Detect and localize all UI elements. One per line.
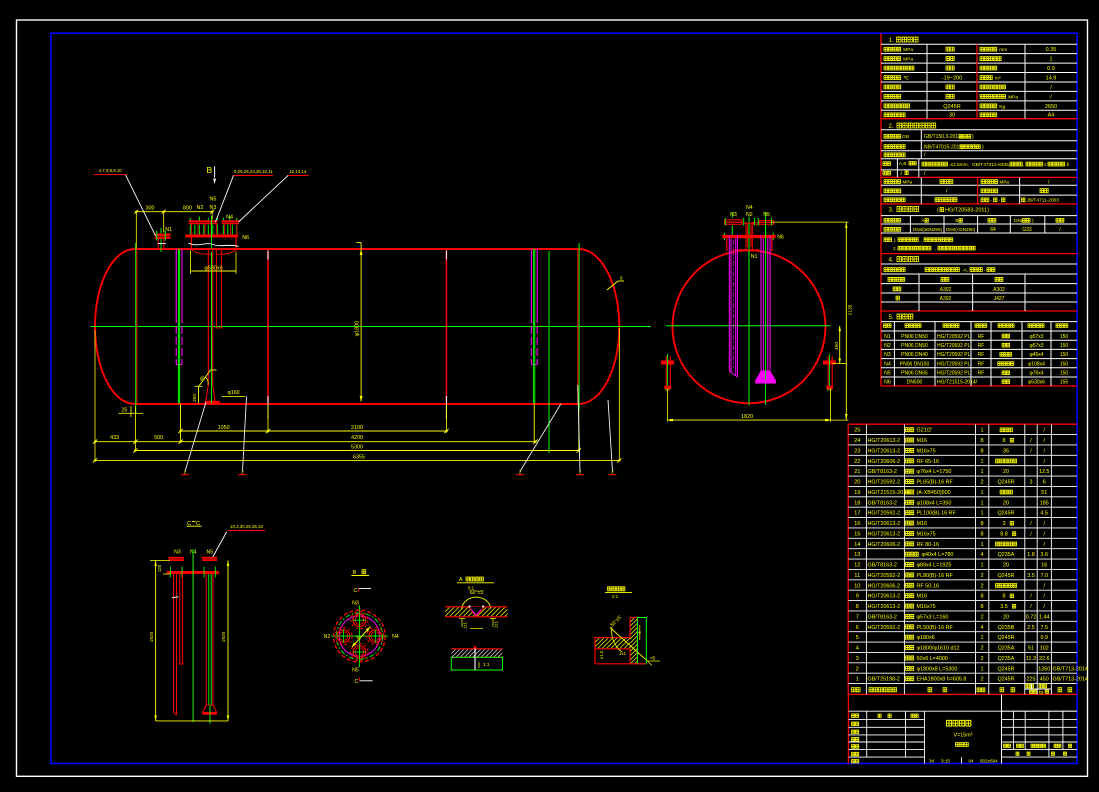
svg-text:10,3,30,26,25,10: 10,3,30,26,25,10 — [230, 524, 264, 529]
svg-text:16: 16 — [1041, 563, 1047, 569]
svg-text:102: 102 — [1040, 646, 1049, 652]
svg-text:433: 433 — [110, 435, 119, 441]
svg-text:RF 50-16: RF 50-16 — [917, 583, 939, 589]
svg-text:0.35: 0.35 — [1046, 47, 1057, 53]
svg-text:NB/T47015-2011(: NB/T47015-2011( — [924, 145, 964, 151]
svg-text:2: 2 — [980, 573, 983, 579]
svg-text:9: 9 — [856, 594, 859, 600]
svg-text:N1: N1 — [751, 254, 758, 260]
svg-text:φ76x4: φ76x4 — [1029, 371, 1043, 377]
svg-text:8: 8 — [1003, 594, 1006, 600]
svg-text:64: 64 — [990, 227, 996, 233]
svg-text:HG/T20592-2: HG/T20592-2 — [868, 480, 901, 486]
svg-text:G21/2': G21/2' — [917, 428, 933, 434]
svg-text:12,13,14: 12,13,14 — [289, 169, 307, 174]
svg-text:HG/T20592 PL: HG/T20592 PL — [937, 343, 971, 349]
svg-text:N5: N5 — [884, 371, 891, 377]
svg-text:φ57x3: φ57x3 — [1029, 334, 1043, 340]
svg-text:22.6: 22.6 — [1039, 656, 1050, 662]
svg-text:N3: N3 — [730, 212, 737, 218]
svg-text:δ: δ — [1067, 162, 1070, 168]
svg-text:MPa: MPa — [1000, 180, 1010, 185]
svg-text:N4: N4 — [746, 205, 753, 211]
svg-text:3.5: 3.5 — [1000, 604, 1008, 610]
svg-text:HG/T21515-2014: HG/T21515-2014 — [868, 490, 910, 496]
svg-text:HG/T20606-2: HG/T20606-2 — [868, 542, 901, 548]
svg-text:PN06 DN65: PN06 DN65 — [901, 371, 928, 377]
svg-text:V=15m³: V=15m³ — [954, 733, 973, 739]
svg-text:φ1800: φ1800 — [355, 321, 361, 337]
svg-text:N2: N2 — [197, 205, 204, 211]
svg-text:MPa: MPa — [903, 180, 913, 185]
svg-text:6: 6 — [1043, 480, 1046, 486]
svg-text:3: 3 — [856, 656, 859, 662]
svg-text:HG/T20613-2: HG/T20613-2 — [868, 531, 901, 537]
svg-text:2: 2 — [980, 656, 983, 662]
svg-text:1: 1 — [980, 563, 983, 569]
svg-text:N1: N1 — [884, 334, 891, 340]
svg-text:1: 1 — [980, 490, 983, 496]
svg-text:1.44: 1.44 — [1039, 614, 1050, 620]
svg-text:EHA1800x8 h=605.8: EHA1800x8 h=605.8 — [917, 677, 967, 683]
svg-text:HG/T20592 PL: HG/T20592 PL — [937, 334, 971, 340]
svg-text:N5: N5 — [210, 197, 217, 203]
svg-text:51: 51 — [1028, 646, 1034, 652]
svg-text:150: 150 — [1060, 343, 1069, 349]
svg-text:1±1: 1±1 — [463, 621, 468, 629]
svg-text:225: 225 — [1027, 677, 1036, 683]
svg-text:4200: 4200 — [351, 435, 363, 441]
svg-text:3: 3 — [1003, 521, 1006, 527]
svg-text:8: 8 — [980, 531, 983, 537]
svg-text:φ180x6: φ180x6 — [917, 635, 935, 641]
svg-text:2: 2 — [980, 583, 983, 589]
svg-text:C: C — [355, 679, 359, 685]
svg-text:1920: 1920 — [221, 631, 227, 642]
svg-text:0.9: 0.9 — [1041, 635, 1049, 641]
svg-text:7.0: 7.0 — [1041, 573, 1049, 579]
svg-text:HG/T20613-2: HG/T20613-2 — [868, 448, 901, 454]
svg-text:φ530x6: φ530x6 — [204, 265, 222, 271]
svg-text:φ1800x8 L=5300: φ1800x8 L=5300 — [917, 666, 958, 672]
svg-text:2: 2 — [980, 614, 983, 620]
svg-text:1: 1 — [980, 500, 983, 506]
svg-text:Q235A: Q235A — [998, 552, 1015, 558]
svg-text:HG/T20592 PL: HG/T20592 PL — [937, 361, 971, 367]
svg-text:1: 1 — [894, 238, 897, 243]
svg-text:35: 35 — [1003, 448, 1009, 454]
svg-text:1: 1 — [856, 677, 859, 683]
svg-text:GB/T713-2014: GB/T713-2014 — [1053, 666, 1088, 672]
svg-text:120: 120 — [157, 564, 162, 572]
svg-text:M16x75: M16x75 — [917, 531, 936, 537]
svg-text:N2: N2 — [324, 634, 331, 640]
svg-text:25: 25 — [854, 428, 860, 434]
svg-text:155: 155 — [1060, 380, 1069, 386]
svg-text:B: B — [207, 165, 213, 175]
svg-text:4.: 4. — [889, 257, 894, 264]
svg-text:60x6 L=4000: 60x6 L=4000 — [917, 656, 948, 662]
svg-text:6: 6 — [856, 625, 859, 631]
svg-text:3.: 3. — [889, 207, 894, 214]
svg-text:m³: m³ — [995, 75, 1001, 81]
svg-text:HG/T20613-2: HG/T20613-2 — [868, 594, 901, 600]
svg-text:2: 2 — [1044, 162, 1047, 168]
svg-text:1.8: 1.8 — [1027, 552, 1035, 558]
svg-text:18: 18 — [854, 500, 860, 506]
svg-text:A: A — [459, 577, 463, 583]
svg-text:5300: 5300 — [351, 445, 363, 451]
svg-text:PL50(B)-16 RF: PL50(B)-16 RF — [917, 625, 954, 631]
svg-text:,: , — [1023, 163, 1024, 168]
svg-text:MPa: MPa — [903, 57, 913, 63]
svg-text:B: B — [353, 570, 357, 576]
svg-text:φ108x4: φ108x4 — [1028, 361, 1045, 367]
svg-text:PN06 DN50: PN06 DN50 — [901, 343, 928, 349]
svg-text:DN(: DN( — [1014, 218, 1023, 224]
svg-text:11.3: 11.3 — [1026, 656, 1036, 662]
svg-text:60°±5': 60°±5' — [470, 590, 485, 596]
svg-text:9,25,26,24,25,10,11: 9,25,26,24,25,10,11 — [234, 169, 273, 174]
svg-text:HG/T20592 PL: HG/T20592 PL — [937, 371, 971, 377]
svg-text:N3: N3 — [884, 352, 891, 358]
svg-text:RF: RF — [978, 352, 985, 358]
svg-text:250: 250 — [192, 394, 198, 402]
svg-text:4: 4 — [980, 552, 983, 558]
svg-text:14.9: 14.9 — [1046, 75, 1057, 81]
svg-text:DN4(<DN250): DN4(<DN250) — [946, 227, 976, 232]
svg-text:φ: φ — [356, 634, 359, 639]
svg-text:1: 1 — [980, 428, 983, 434]
svg-text:11: 11 — [854, 573, 860, 579]
svg-text:M16x75: M16x75 — [917, 448, 936, 454]
svg-text:mm: mm — [999, 48, 1007, 53]
svg-text:2.5: 2.5 — [1027, 625, 1035, 631]
svg-text:J427: J427 — [994, 296, 1005, 302]
svg-text:21: 21 — [854, 469, 860, 475]
svg-text:12.5: 12.5 — [1039, 469, 1050, 475]
svg-text:6: 6 — [620, 276, 623, 281]
svg-text:A302: A302 — [940, 287, 952, 293]
svg-text:17: 17 — [854, 511, 860, 517]
svg-text:N3: N3 — [352, 601, 359, 607]
svg-text:RF: RF — [978, 371, 985, 377]
svg-text:φ57x3: φ57x3 — [1029, 343, 1043, 349]
svg-text:HG/T20606-2: HG/T20606-2 — [868, 583, 901, 589]
svg-text:GB/T713-2014: GB/T713-2014 — [1053, 677, 1088, 683]
svg-text:8: 8 — [856, 604, 859, 610]
svg-text:N2: N2 — [746, 212, 753, 218]
svg-text:PN06 DN50: PN06 DN50 — [901, 334, 928, 340]
svg-text:500: 500 — [154, 435, 163, 441]
svg-text:PL65(B)-16 RF: PL65(B)-16 RF — [917, 480, 954, 486]
svg-text:φ530x6: φ530x6 — [1028, 380, 1045, 386]
svg-text:16: 16 — [854, 521, 860, 527]
svg-text:,≤2.5mm,: ,≤2.5mm, — [949, 162, 969, 168]
svg-text:8: 8 — [980, 438, 983, 444]
svg-text:Q235B: Q235B — [998, 625, 1015, 631]
svg-text:800: 800 — [183, 206, 192, 212]
svg-text:22: 22 — [854, 459, 860, 465]
svg-text:Kg: Kg — [999, 104, 1005, 110]
svg-text:13: 13 — [854, 552, 860, 558]
svg-text:20: 20 — [1003, 469, 1009, 475]
svg-text:2:1: 2:1 — [612, 594, 619, 599]
svg-text:51: 51 — [1041, 490, 1047, 496]
svg-text:≥1.5: ≥1.5 — [599, 650, 604, 659]
svg-text:G33: G33 — [1022, 227, 1032, 233]
svg-text:M16: M16 — [917, 438, 928, 444]
svg-text:N5: N5 — [763, 212, 770, 218]
svg-text:M16x75: M16x75 — [917, 604, 936, 610]
svg-text:≈5: ≈5 — [650, 656, 656, 661]
svg-text:Q245R: Q245R — [997, 511, 1014, 517]
svg-text:RF: RF — [978, 334, 985, 340]
svg-text:GB/T8163-2: GB/T8163-2 — [868, 469, 897, 475]
svg-text:PL80(B)-16 RF: PL80(B)-16 RF — [917, 573, 954, 579]
svg-text:300: 300 — [146, 206, 155, 212]
svg-text:A302: A302 — [940, 296, 952, 302]
svg-text:20: 20 — [1003, 614, 1009, 620]
svg-text:7: 7 — [856, 614, 859, 620]
svg-text:1:1: 1:1 — [483, 662, 490, 667]
svg-text:8: 8 — [980, 604, 983, 610]
svg-text:RF 65-16: RF 65-16 — [917, 459, 939, 465]
svg-text:GB/T8163-2: GB/T8163-2 — [868, 500, 897, 506]
svg-text:DN500: DN500 — [907, 380, 923, 386]
svg-text:,: , — [935, 246, 936, 251]
svg-text:J: J — [900, 171, 902, 176]
svg-text:HG/T20613-2: HG/T20613-2 — [868, 438, 901, 444]
svg-text:A302: A302 — [993, 287, 1005, 293]
svg-text:N4: N4 — [226, 215, 233, 221]
svg-text:PL100(B)-16 RF: PL100(B)-16 RF — [917, 511, 957, 517]
svg-text:GB/T8163-2: GB/T8163-2 — [868, 614, 897, 620]
svg-text:150: 150 — [1060, 361, 1069, 367]
svg-text:φ57x3 L=160: φ57x3 L=160 — [917, 614, 949, 620]
svg-text:24: 24 — [854, 438, 861, 444]
svg-text:M16: M16 — [917, 594, 928, 600]
svg-text:2: 2 — [856, 666, 859, 672]
svg-text:1050: 1050 — [218, 425, 230, 431]
svg-text:1: 1 — [980, 469, 983, 475]
svg-text:2: 2 — [980, 677, 983, 683]
svg-text:2.: 2. — [893, 246, 897, 251]
svg-text:-A,: -A, — [962, 268, 968, 274]
svg-text:(: ( — [937, 208, 939, 214]
svg-text:14: 14 — [854, 542, 861, 548]
svg-text:φ45x4: φ45x4 — [1029, 352, 1043, 358]
svg-text:HG/T20606-2: HG/T20606-2 — [868, 459, 901, 465]
svg-text:N6: N6 — [242, 235, 249, 241]
svg-text:12: 12 — [854, 563, 860, 569]
svg-text:N4: N4 — [392, 634, 399, 640]
svg-text:HG/T21515-2014/: HG/T21515-2014/ — [937, 380, 978, 386]
svg-text:N3: N3 — [210, 205, 217, 211]
svg-text:RF: RF — [978, 361, 985, 367]
svg-text:M16: M16 — [917, 521, 928, 527]
svg-text:JB/T4711-2003: JB/T4711-2003 — [1027, 198, 1060, 204]
svg-text:PN06 DN100: PN06 DN100 — [900, 361, 930, 367]
svg-text:Q235A: Q235A — [998, 646, 1015, 652]
svg-text:20: 20 — [1003, 500, 1009, 506]
svg-text:4,7,3,8,9,10: 4,7,3,8,9,10 — [99, 168, 123, 173]
svg-text:N5: N5 — [352, 668, 359, 674]
svg-text:N4: N4 — [884, 361, 891, 367]
svg-text:450: 450 — [1040, 677, 1049, 683]
svg-text:8: 8 — [980, 521, 983, 527]
svg-text:2135: 2135 — [848, 304, 854, 315]
svg-text:φ76x4 L=1750: φ76x4 L=1750 — [917, 469, 952, 475]
svg-text:1: 1 — [980, 666, 983, 672]
svg-text:(A-XB450)500: (A-XB450)500 — [917, 490, 951, 496]
svg-text:450: 450 — [834, 342, 840, 350]
svg-text:20: 20 — [854, 480, 860, 486]
svg-text:8: 8 — [980, 594, 983, 600]
svg-text:150: 150 — [1060, 371, 1069, 377]
svg-text:7.5: 7.5 — [1041, 625, 1049, 631]
svg-text:PN06 DN40: PN06 DN40 — [901, 352, 928, 358]
svg-text:23: 23 — [854, 448, 860, 454]
svg-text:1±1: 1±1 — [494, 620, 499, 628]
svg-text:Q245R: Q245R — [997, 666, 1014, 672]
svg-text:HG/T20583-2011): HG/T20583-2011) — [945, 208, 989, 214]
svg-text:HG/T20613-2: HG/T20613-2 — [868, 604, 901, 610]
svg-text:150: 150 — [1060, 352, 1069, 358]
svg-text:2100: 2100 — [351, 425, 363, 431]
svg-text:HG/T20592-2: HG/T20592-2 — [868, 573, 901, 579]
svg-text:1±1: 1±1 — [619, 651, 627, 656]
svg-text:GB/T47312-8305,: GB/T47312-8305, — [972, 162, 1010, 168]
svg-text:N6: N6 — [884, 380, 891, 386]
svg-text:8: 8 — [980, 448, 983, 454]
svg-text:℃: ℃ — [903, 75, 909, 81]
svg-text:N3: N3 — [174, 549, 181, 555]
svg-text:φ1800/φ1610 d12: φ1800/φ1610 d12 — [917, 646, 960, 652]
svg-text:Q235A: Q235A — [998, 656, 1015, 662]
svg-text:5: 5 — [856, 635, 859, 641]
svg-text:4: 4 — [980, 625, 983, 631]
svg-text:N2: N2 — [884, 343, 891, 349]
svg-text:1: 1 — [1049, 57, 1052, 63]
svg-text:3.6: 3.6 — [1041, 552, 1049, 558]
svg-text:20: 20 — [1003, 563, 1009, 569]
svg-text:GB/T150.3-2011(: GB/T150.3-2011( — [924, 134, 963, 140]
svg-text:RF: RF — [978, 343, 985, 349]
svg-text:0.72: 0.72 — [1026, 614, 1037, 620]
svg-text:Q245R: Q245R — [997, 677, 1014, 683]
svg-text:A,B: A,B — [899, 161, 906, 166]
svg-text:φ160: φ160 — [227, 390, 239, 396]
svg-text:2: 2 — [980, 480, 983, 486]
svg-text:150: 150 — [1060, 334, 1069, 340]
svg-text:0.9: 0.9 — [1047, 66, 1055, 72]
svg-text:6355: 6355 — [353, 455, 365, 461]
svg-text:1.: 1. — [889, 37, 894, 44]
svg-text:1: 1 — [980, 542, 983, 548]
svg-text:2650: 2650 — [1045, 104, 1057, 110]
svg-text:5.: 5. — [889, 314, 894, 321]
svg-text:1350: 1350 — [1038, 666, 1050, 672]
svg-text:1820: 1820 — [741, 414, 753, 420]
svg-text:25: 25 — [122, 407, 128, 413]
svg-text:2: 2 — [980, 646, 983, 652]
svg-text:HG/T20592 PL: HG/T20592 PL — [937, 352, 971, 358]
svg-text:04: 04 — [969, 758, 975, 763]
svg-text:30: 30 — [949, 113, 955, 119]
svg-text:HG/T20592-2: HG/T20592-2 — [868, 511, 901, 517]
svg-text:2.: 2. — [889, 123, 894, 130]
svg-text:185: 185 — [1040, 500, 1049, 506]
svg-text:,: , — [921, 238, 922, 243]
svg-text:3:15: 3:15 — [941, 758, 950, 763]
svg-text:B: B — [955, 218, 958, 224]
svg-text:DN4(≥DN256): DN4(≥DN256) — [913, 227, 943, 232]
svg-text:A4: A4 — [1048, 113, 1055, 119]
svg-text:10: 10 — [854, 583, 860, 589]
svg-text:HG/T20592-2: HG/T20592-2 — [868, 625, 901, 631]
svg-text:N5: N5 — [206, 549, 213, 555]
svg-text:4.5: 4.5 — [1041, 511, 1049, 517]
svg-text:GB/T8163-2: GB/T8163-2 — [868, 563, 897, 569]
svg-text:8.8: 8.8 — [1000, 531, 1008, 537]
svg-text:GB/T25198-2: GB/T25198-2 — [868, 677, 900, 683]
svg-text:N1: N1 — [165, 227, 172, 233]
svg-text:RF 80-16: RF 80-16 — [917, 542, 939, 548]
svg-text:3: 3 — [1030, 480, 1033, 486]
svg-text:19: 19 — [854, 490, 860, 496]
svg-text:MPa: MPa — [1008, 94, 1018, 100]
svg-text:Q245R: Q245R — [997, 573, 1014, 579]
svg-text:1: 1 — [980, 635, 983, 641]
svg-text:.: . — [980, 246, 981, 251]
svg-text:1: 1 — [980, 511, 983, 517]
svg-text:MPa: MPa — [903, 47, 913, 53]
svg-text:8: 8 — [1003, 438, 1006, 444]
svg-text:HG/T20613-2: HG/T20613-2 — [868, 521, 901, 527]
svg-text:φ89x4 L=1925: φ89x4 L=1925 — [917, 563, 952, 569]
svg-text:φ40x4 L=780: φ40x4 L=780 — [922, 552, 954, 558]
svg-text:502x594: 502x594 — [980, 758, 998, 763]
svg-text:Q245R: Q245R — [997, 635, 1014, 641]
svg-text:C: C — [354, 588, 358, 594]
svg-text:15: 15 — [854, 531, 860, 537]
svg-text:φ108x4 L=350: φ108x4 L=350 — [917, 500, 952, 506]
svg-text:3.5: 3.5 — [1027, 573, 1035, 579]
svg-text:-19~200: -19~200 — [942, 75, 962, 81]
svg-text:GB: GB — [902, 134, 909, 140]
svg-text:1: 1 — [980, 459, 983, 465]
svg-text:N6: N6 — [777, 234, 784, 240]
svg-text:Q245R: Q245R — [943, 104, 960, 110]
svg-text:Q245R: Q245R — [997, 480, 1014, 486]
svg-text:1920: 1920 — [149, 631, 155, 642]
svg-text:34: 34 — [929, 758, 935, 763]
